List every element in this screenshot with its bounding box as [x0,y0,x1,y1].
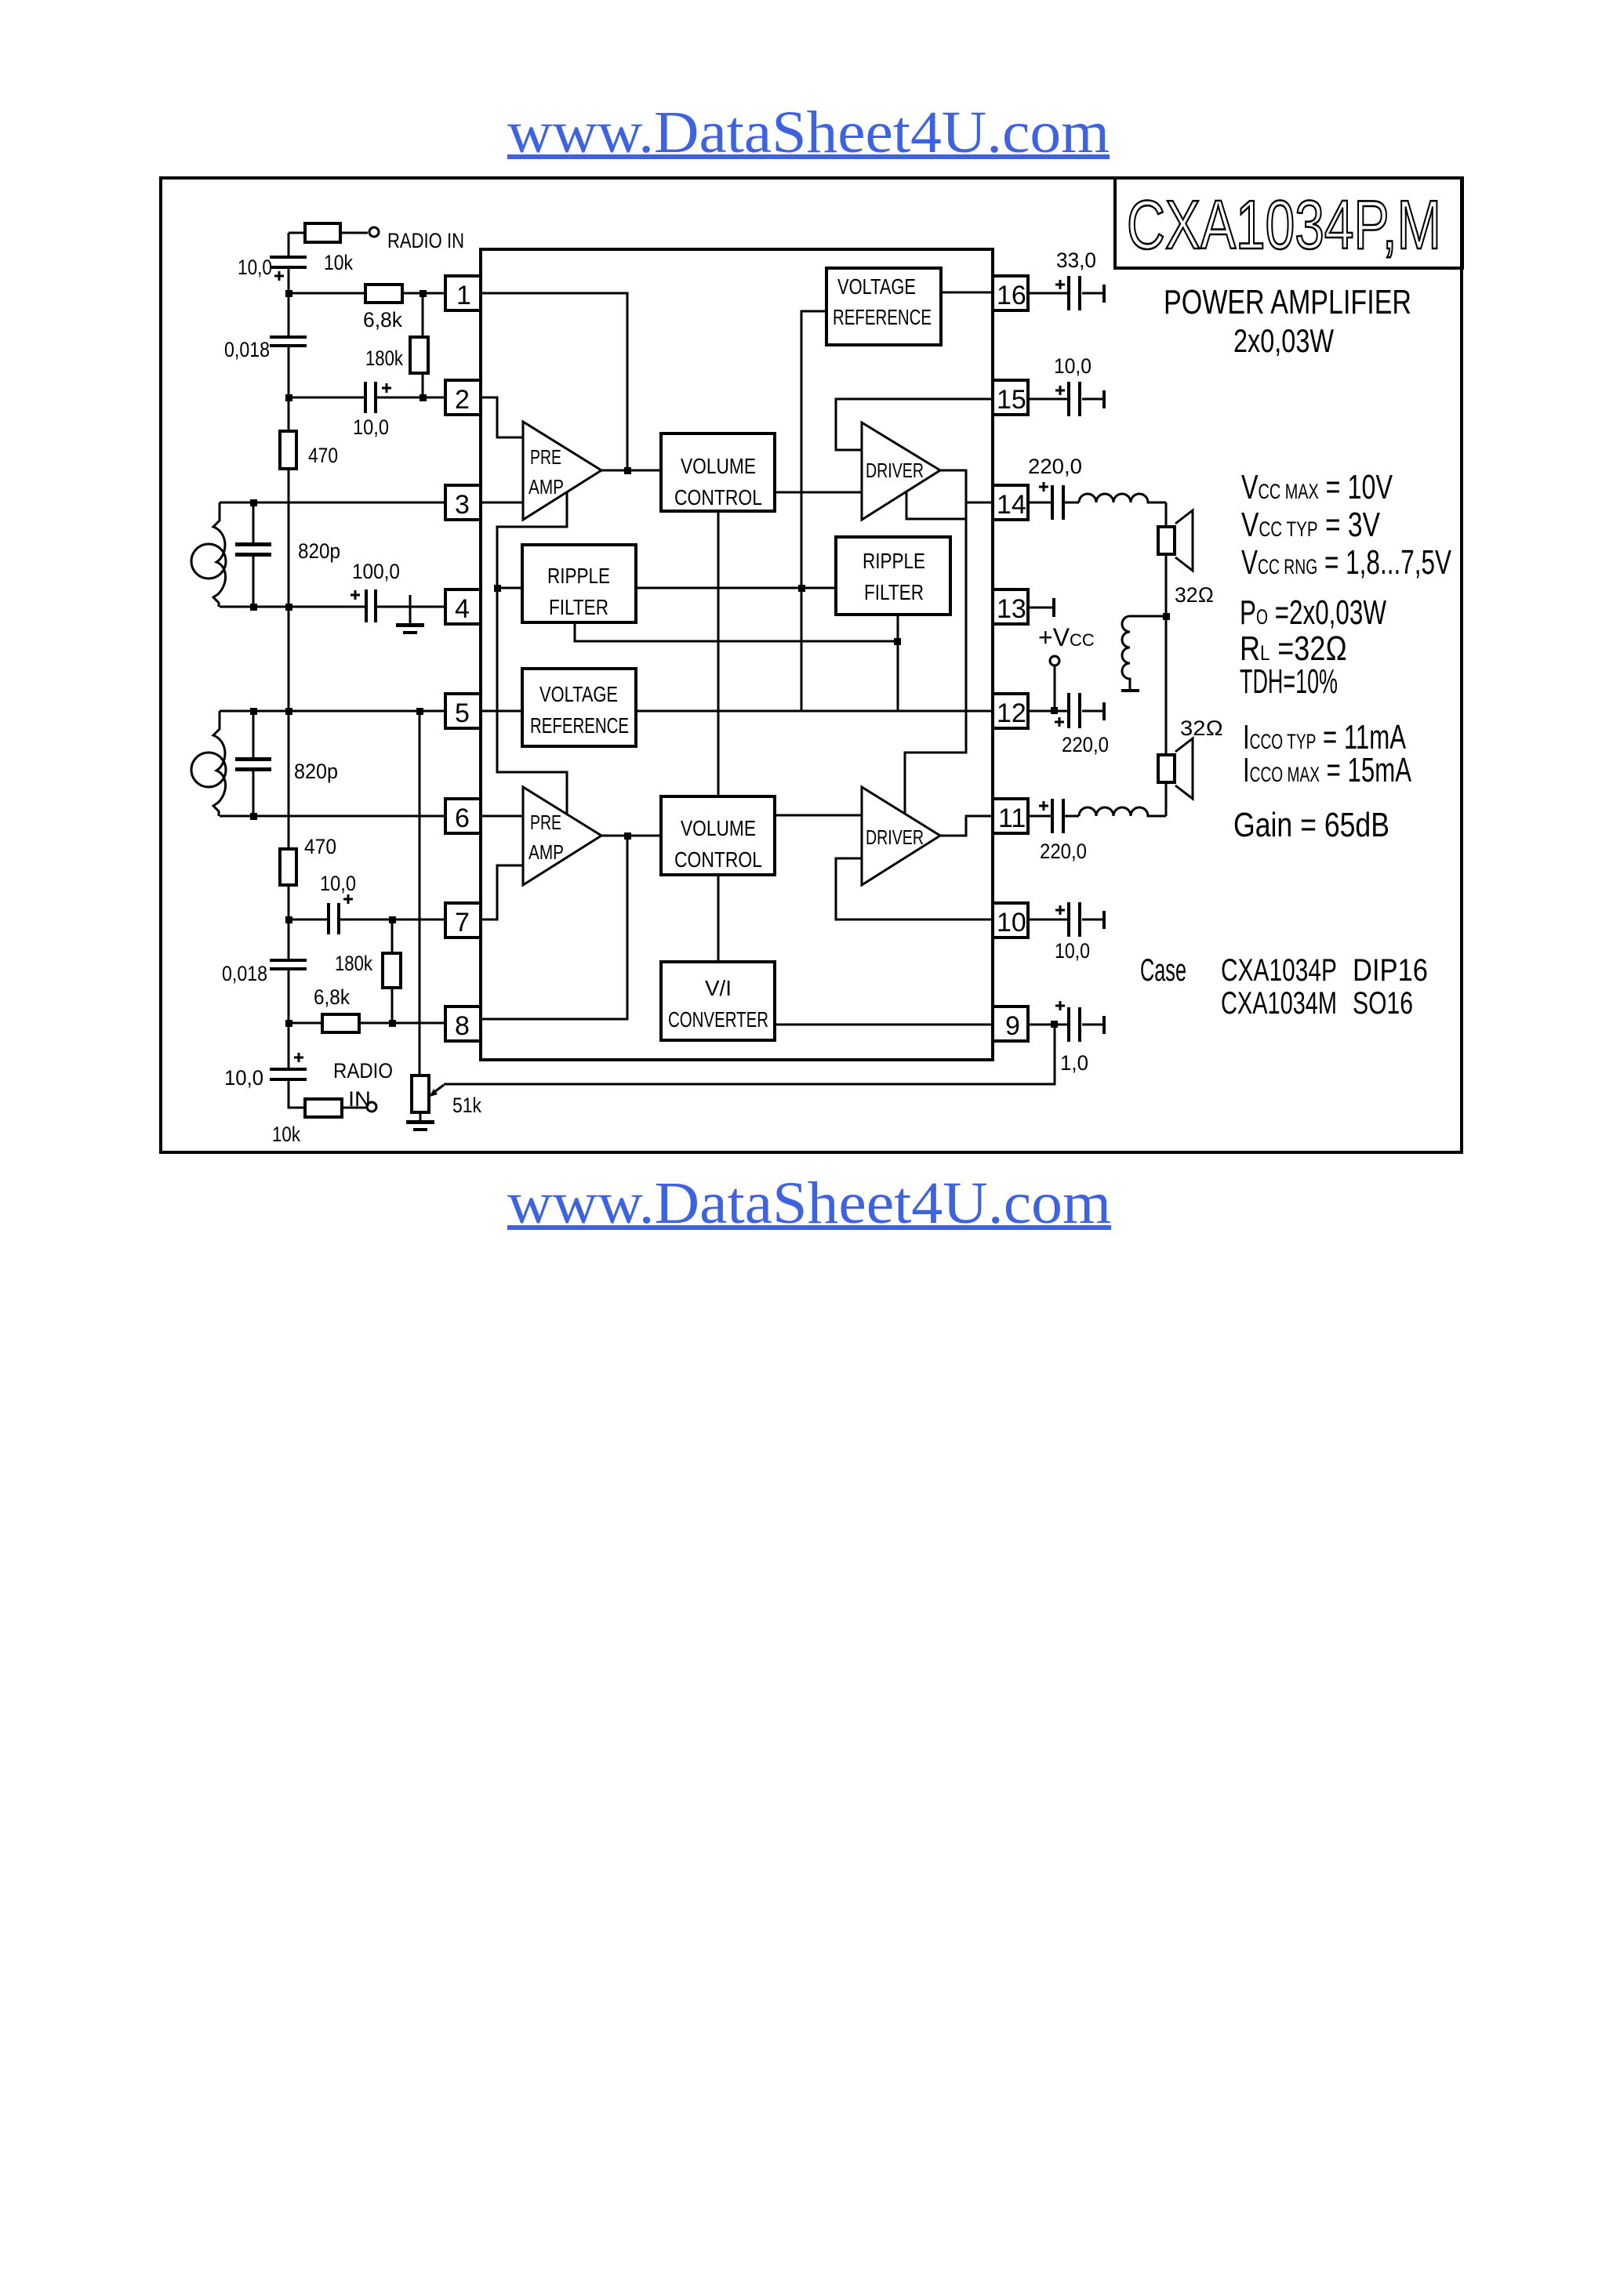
wire pin7 net [289,919,445,921]
pin 2 [445,380,481,415]
svg-text:12: 12 [997,698,1026,728]
svg-text:CONTROL: CONTROL [674,847,762,872]
node rail/pin1 [285,290,292,297]
svg-text:51k: 51k [452,1094,481,1117]
svg-text:180k: 180k [335,952,372,975]
capacitor 10,0 (ch1 input coupling) [353,382,391,439]
svg-text:VOLUME: VOLUME [681,454,756,478]
node 820p2/pin5 [250,708,257,715]
capacitor 820p (ch1) [235,502,340,607]
svg-text:RADIO: RADIO [333,1059,393,1083]
wire driver1 output jog to pin14 [966,502,993,504]
svg-text:10,0: 10,0 [353,415,389,439]
svg-text:2: 2 [455,385,470,415]
svg-text:100,0: 100,0 [352,560,400,583]
svg-text:0,018: 0,018 [224,338,270,361]
wire 51k wiper to pin9 node [444,1025,1055,1084]
svg-text:470: 470 [304,835,336,858]
resistor 10k (top radio input) [289,223,368,274]
node 820p/pin4 [250,604,257,611]
node RF2 stub junction [894,638,901,645]
wire preamp1 feedback tap to preamp2 top input [497,491,567,814]
wire pin6 net [220,815,445,818]
wire pin15 to driver1 top input [836,399,993,450]
inductor (vertical damping coil) [1121,616,1139,692]
IC body CXA1034 outline [481,249,993,1060]
svg-text:1: 1 [456,281,471,310]
capacitor 10,0 (bottom left electrolytic) [224,1053,307,1090]
wire pin8 net [289,1022,445,1025]
node pin1/180k [420,290,427,297]
svg-text:DIP16: DIP16 [1353,953,1428,988]
svg-text:CONVERTER: CONVERTER [668,1007,768,1032]
wire pin2 net [289,397,445,399]
svg-text:11: 11 [998,803,1026,833]
capacitor 820p (ch2) [235,711,338,816]
block voltage reference 2 [522,669,636,746]
wire volume control link VC1-VC2 [717,511,720,796]
svg-text:1,0: 1,0 [1060,1051,1088,1075]
node preamp2 output [624,832,631,840]
block voltage reference 1 [826,268,941,345]
speaker 32 ohm (top) [1158,510,1214,607]
svg-text:RIPPLE: RIPPLE [547,564,610,588]
pin 14 [993,485,1028,520]
wire pin5 net [220,710,445,713]
wire speaker2 bottom [1165,782,1168,816]
op-amp preamp 2 [523,787,601,885]
svg-text:10,0: 10,0 [224,1066,263,1090]
wire preamp2 output to volume control 2 [601,835,661,837]
wire pin5 to vref2 [481,710,522,713]
supply +Vcc [1038,623,1095,714]
svg-text:3: 3 [455,490,470,520]
node 820p/pin3 [250,499,257,506]
wire vref1 left drop to vref2 bus [801,311,826,712]
resistor 10k (bottom radio input) [272,1099,366,1146]
svg-text:CXA1034M: CXA1034M [1221,986,1337,1021]
wire pin3 net [220,502,445,504]
block V/I converter [661,962,775,1040]
svg-text:VOLUME: VOLUME [681,816,756,840]
node 51k riser/pin5 [416,708,423,715]
svg-text:6: 6 [455,803,470,833]
pin 6 [445,799,481,833]
node pin9 / 51k wiper [1051,1021,1058,1028]
microphone pickup 2 [191,711,226,816]
schematic outer border frame [161,178,1462,1152]
op-amp driver 2 [862,787,940,885]
title box CXA1034P,M [1115,178,1462,268]
svg-text:33,0: 33,0 [1056,248,1096,272]
node pin2/180k [420,394,427,401]
wire pin2 to preamp1 input [481,397,523,437]
svg-text:PRE: PRE [530,811,561,834]
wire left rail (input network vertical bus) [289,233,305,1108]
capacitor 10,0 (pin10) [1028,902,1106,963]
inductor (pin11 output choke) [1079,807,1166,816]
wire ripple filter 1 bottom stub to pin12 bus [575,622,898,641]
capacitor 0,018 (ch1) [224,336,307,361]
wire pin10 to driver2 bottom input [836,858,993,919]
svg-text:V/I: V/I [705,976,732,1000]
op-amp preamp 1 [523,422,601,520]
op-amp driver 1 [862,423,940,520]
wire driver1 feedback tap [906,492,966,519]
svg-text:CXA1034P,M: CXA1034P,M [1127,186,1441,263]
capacitor 0,018 (ch2) [222,959,307,985]
wire pin3 to preamp1 input [481,502,523,504]
svg-text:VOLTAGE: VOLTAGE [837,274,916,299]
wire vref1 output to pin16 [941,292,993,294]
node 820p2/pin6 [250,813,257,820]
svg-text:8: 8 [455,1011,470,1041]
svg-text:PRE: PRE [530,445,561,469]
svg-text:13: 13 [997,594,1026,624]
svg-text:VOLTAGE: VOLTAGE [539,682,618,706]
resistor 470 (ch1) [280,431,338,469]
svg-text:10k: 10k [324,251,353,274]
ground (ch1) [396,595,424,634]
svg-text:RIPPLE: RIPPLE [863,549,925,573]
capacitor 10,0 (pin15) [1028,354,1106,416]
terminal radio in (bottom) [333,1059,393,1112]
node pin7/180k [389,916,396,923]
wire V/I converter to pin9 [775,1024,993,1026]
potentiometer 51k [412,711,481,1122]
svg-text:10,0: 10,0 [238,256,272,279]
microphone pickup 1 [191,502,226,607]
pin 10 [993,903,1028,938]
block ripple filter 2 [836,537,950,615]
resistor 470 (ch2) [280,835,336,885]
pin 15 [993,380,1028,415]
svg-text:6,8k: 6,8k [363,308,402,332]
wire speaker column [1165,554,1168,755]
svg-text:10,0: 10,0 [320,872,356,895]
svg-text:2x0,03W: 2x0,03W [1233,322,1334,359]
svg-text:15: 15 [997,385,1026,415]
svg-text:FILTER: FILTER [549,595,608,619]
wire volume control 2 to driver2 input [775,814,862,817]
wire pin4 net [220,606,445,608]
node preamp1 output [624,467,631,474]
svg-text:AMP: AMP [528,840,564,864]
svg-text:10k: 10k [272,1123,300,1146]
svg-text:220,0: 220,0 [1040,840,1087,863]
svg-text:CXA1034P: CXA1034P [1221,953,1337,988]
capacitor 10,0 (ch2 input coupling) [320,872,356,934]
pin 16 [993,276,1028,310]
wire ripple filter 2 bottom stub [897,615,899,711]
wire pin13 stub [1028,598,1055,617]
block ripple filter 1 [522,545,636,622]
wire vref2 to pin12 bus [636,710,993,713]
bottom banner link www.DataSheet4U.com [507,1170,1111,1236]
wire volume control 2 to V/I converter [717,875,720,962]
resistor 6,8k (ch2) [314,985,359,1032]
inductor (pin14 output choke) [1079,494,1166,502]
wire ripple filter bus RF1 to RF2 [636,587,836,589]
pin 9 [993,1007,1028,1041]
pin 7 [445,903,481,938]
pin 5 [445,694,481,728]
capacitor 220,0 (pin11) [1028,799,1087,863]
wire pin6 to preamp2 input [481,815,523,818]
pin 4 [445,589,481,624]
svg-text:10: 10 [997,908,1026,938]
resistor 6,8k (ch1) [363,285,402,332]
pin 13 [993,589,1028,624]
resistor 180k (ch2) [335,919,401,1023]
svg-text:220,0: 220,0 [1028,455,1082,478]
node rail/pin8 [285,1020,292,1027]
pin 11 [993,799,1028,833]
svg-text:32Ω: 32Ω [1180,716,1223,740]
svg-text:14: 14 [997,490,1026,520]
wire pin8 feedback to preamp2 output [481,836,627,1019]
capacitor 100,0 (ch1 to ground) [351,560,400,622]
svg-text:470: 470 [308,444,338,467]
svg-text:4: 4 [455,594,470,624]
svg-text:820p: 820p [294,760,338,783]
wire to speaker 1 [1165,502,1168,527]
svg-text:REFERENCE: REFERENCE [833,305,932,329]
node ripple bus tap [494,585,501,592]
svg-text:FILTER: FILTER [864,580,924,604]
svg-text:DRIVER: DRIVER [866,825,924,849]
svg-text:Gain = 65dB: Gain = 65dB [1233,806,1389,844]
wire driver1 output to pin14 and driver2 input [905,470,966,813]
capacitor 10,0 (top left electrolytic) [238,256,307,281]
speaker 32 ohm (bottom) [1158,716,1223,799]
node speaker column / damping coil [1163,613,1170,620]
svg-text:820p: 820p [298,539,340,563]
svg-text:POWER AMPLIFIER: POWER AMPLIFIER [1164,283,1411,321]
wire volume control 1 to driver1 input [775,491,862,494]
block volume control 1 [661,433,775,511]
wire ripple filter 1 left stub [497,587,522,589]
pin 3 [445,485,481,520]
pin 1 [445,276,481,310]
wire driver2 output to pin11 [940,816,993,836]
node pin8/180k [389,1020,396,1027]
node rail/pin2 [285,394,292,401]
svg-text:10,0: 10,0 [1055,939,1090,963]
block volume control 2 [661,796,775,875]
wire pin7 to preamp2 input [481,865,523,919]
node ripple bus / vref1 drop [798,585,805,592]
node rail/pin7 [285,916,292,923]
capacitor 1,0 (pin9) [1028,1001,1106,1075]
svg-text:10,0: 10,0 [1054,354,1092,378]
svg-text:5: 5 [455,698,470,728]
ground (51k) [406,1120,434,1131]
node rail/pin5 [285,708,292,715]
svg-text:7: 7 [455,908,470,938]
capacitor 220,0 (pin14) [1028,455,1082,520]
node rail/pin4 [285,604,292,611]
svg-text:180k: 180k [365,346,403,370]
wire preamp1 output to volume control 1 [601,470,661,472]
top banner link www.DataSheet4U.com [507,100,1110,165]
pin 12 [993,694,1028,728]
svg-text:Case: Case [1140,953,1186,988]
svg-text:DRIVER: DRIVER [866,459,924,482]
wire pin1 net [289,292,445,295]
svg-text:RADIO IN: RADIO IN [387,229,464,252]
svg-text:SO16: SO16 [1353,986,1413,1021]
svg-text:220,0: 220,0 [1062,733,1109,756]
pin 8 [445,1007,481,1041]
resistor 180k (ch1) [365,293,428,397]
capacitor 220,0 (pin12) [1028,693,1109,756]
capacitor 33,0 (pin16) [1028,248,1106,310]
svg-text:IN: IN [348,1087,371,1111]
svg-text:TDH=10%: TDH=10% [1240,662,1338,701]
svg-text:AMP: AMP [528,475,564,499]
wire to damping coil [1130,615,1166,618]
wire pin1 feedback to preamp1 output [481,293,627,470]
svg-text:CONTROL: CONTROL [674,485,762,510]
svg-text:REFERENCE: REFERENCE [530,713,629,738]
svg-text:6,8k: 6,8k [314,985,350,1009]
terminal radio in (top) [369,227,464,252]
svg-text:16: 16 [997,281,1026,310]
svg-text:32Ω: 32Ω [1175,583,1214,607]
svg-text:0,018: 0,018 [222,962,267,985]
svg-text:9: 9 [1005,1011,1020,1041]
